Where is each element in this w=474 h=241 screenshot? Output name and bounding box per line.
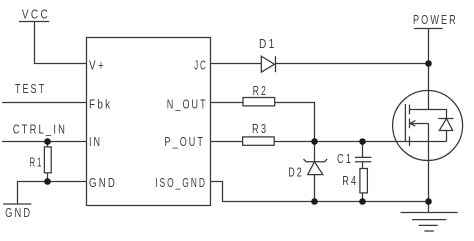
- svg-text:R3: R3: [252, 121, 268, 136]
- capacitor C1: [355, 142, 371, 169]
- svg-text:D1: D1: [259, 36, 277, 51]
- drain connection: [410, 110, 447, 119]
- body diode: [438, 119, 453, 142]
- wire POWER to drain: [428, 29, 430, 110]
- wire N_OUT to R2: [211, 102, 244, 104]
- resistor R3: [243, 137, 275, 145]
- ground (bottom-right): [401, 202, 458, 232]
- wire GND pin to ground: [18, 182, 87, 205]
- node CTRL_IN junction: [44, 138, 51, 145]
- svg-text:ISO_GND: ISO_GND: [155, 175, 207, 190]
- node source junction: [425, 198, 432, 205]
- svg-text:R2: R2: [253, 83, 268, 98]
- wire P_OUT to R3: [211, 141, 243, 143]
- svg-text:GND: GND: [89, 175, 117, 190]
- node POWER junction: [425, 60, 432, 67]
- diode D1: [261, 56, 275, 72]
- channel segment bottom: [409, 136, 411, 146]
- resistor R4: [360, 169, 368, 202]
- ground GND (bottom-left bar): [3, 203, 31, 205]
- channel segment middle: [409, 119, 411, 129]
- svg-text:C1: C1: [337, 151, 353, 166]
- resistor R2: [243, 98, 275, 106]
- wire R2 to node A: [275, 103, 315, 142]
- node A junction (D2 top): [311, 138, 318, 145]
- svg-text:IN: IN: [89, 134, 102, 149]
- svg-text:CTRL_IN: CTRL_IN: [13, 122, 67, 137]
- wire JC to D1: [211, 63, 262, 65]
- wire TEST to Fbk pin: [2, 102, 87, 104]
- channel segment top: [409, 105, 411, 115]
- wire D1 to POWER node: [276, 63, 429, 65]
- gate bar: [404, 104, 406, 142]
- node R1 bottom junction: [44, 178, 51, 185]
- transistor Q1 (MOSFET circle): [393, 91, 463, 161]
- node C1 top junction: [359, 138, 366, 145]
- wire R3 to gate: [274, 141, 446, 143]
- zener diode D2: [304, 142, 328, 202]
- svg-text:R4: R4: [342, 173, 358, 188]
- svg-text:TEST: TEST: [15, 81, 46, 96]
- power symbol VCC: [19, 21, 49, 23]
- body arrow: [410, 121, 429, 142]
- svg-text:VCC: VCC: [22, 7, 50, 22]
- svg-text:V+: V+: [89, 58, 106, 73]
- wire source to ground rail: [428, 142, 430, 202]
- svg-text:N_OUT: N_OUT: [167, 97, 208, 112]
- wire ISO_GND to ground rail: [211, 182, 429, 202]
- svg-text:Fbk: Fbk: [89, 97, 112, 112]
- svg-text:P_OUT: P_OUT: [165, 134, 206, 149]
- node R4 bottom junction: [359, 198, 366, 205]
- wire VCC to V+ pin: [35, 22, 87, 64]
- svg-text:POWER: POWER: [413, 12, 458, 27]
- svg-text:GND: GND: [5, 205, 32, 220]
- svg-text:JC: JC: [194, 58, 208, 73]
- svg-text:R1: R1: [30, 155, 44, 170]
- resistor R1: [44, 142, 51, 182]
- power symbol POWER: [414, 28, 443, 30]
- op-amp U1 (IC box): [87, 38, 211, 206]
- node D2 bottom junction: [311, 198, 318, 205]
- svg-text:D2: D2: [288, 165, 304, 180]
- wire CTRL_IN to IN pin: [2, 141, 87, 143]
